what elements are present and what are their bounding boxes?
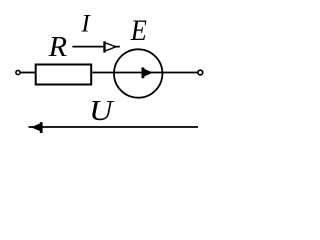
wire resistor to source — [92, 72, 115, 74]
voltage arrow U — [29, 122, 199, 133]
wire through source — [114, 72, 164, 74]
current arrow I — [72, 41, 119, 52]
source E (circle) — [114, 49, 162, 97]
wire terminal-left to resistor — [21, 72, 36, 74]
svg-text:E: E — [130, 15, 147, 48]
terminal (left node) — [16, 70, 20, 74]
svg-text:U: U — [89, 95, 115, 127]
emf arrow of source E — [142, 67, 152, 78]
resistor R — [36, 65, 91, 85]
svg-text:R: R — [48, 32, 68, 63]
terminal (right node) — [198, 70, 203, 75]
wire source to terminal-right — [163, 72, 198, 74]
